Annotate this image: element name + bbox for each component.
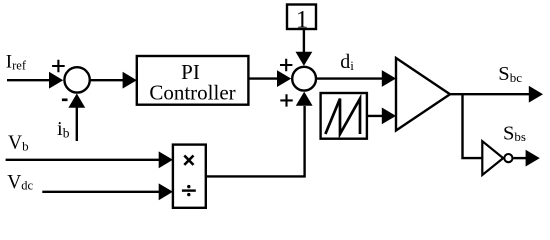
wire S2 to comparator: [316, 70, 396, 87]
block sawtooth carrier: [321, 93, 367, 139]
summing junction S1: [64, 67, 89, 92]
plus sign at S2 lower left: [280, 94, 292, 106]
block multiplier divider: [173, 145, 206, 208]
wire ib feedback into S1: [68, 94, 85, 142]
constant block 1: [287, 5, 316, 30]
wire PI output to summer S2: [248, 70, 291, 87]
inverter gate: [482, 141, 512, 175]
summing junction S2: [292, 67, 316, 91]
wire branch down to inverter: [463, 94, 483, 158]
minus sign at S1 lower input: [62, 98, 68, 101]
wire Vdc to divider block: [42, 183, 173, 200]
wire Iref input to summer S1: [7, 72, 63, 89]
wire comparator output to Sbc: [450, 86, 543, 103]
sawtooth waveform: [325, 99, 360, 134]
wire constant 1 down into summer S2: [296, 29, 313, 66]
wire Vb to divider block: [6, 151, 173, 168]
block PI Controller: [137, 56, 249, 105]
plus sign at S2 upper left: [280, 59, 292, 71]
wire inverter output to Sbs: [514, 150, 540, 167]
svg-text:Controller: Controller: [149, 81, 235, 105]
comparator U1: [396, 58, 450, 131]
plus sign at S1 upper input: [52, 60, 65, 73]
multiply sign: [184, 156, 193, 165]
wire sawtooth to comparator: [367, 108, 396, 125]
divide sign: [182, 185, 196, 196]
wire divider output up into S2: [206, 92, 313, 177]
wire S1 to PI controller: [90, 72, 137, 89]
svg-text:1: 1: [296, 6, 309, 33]
